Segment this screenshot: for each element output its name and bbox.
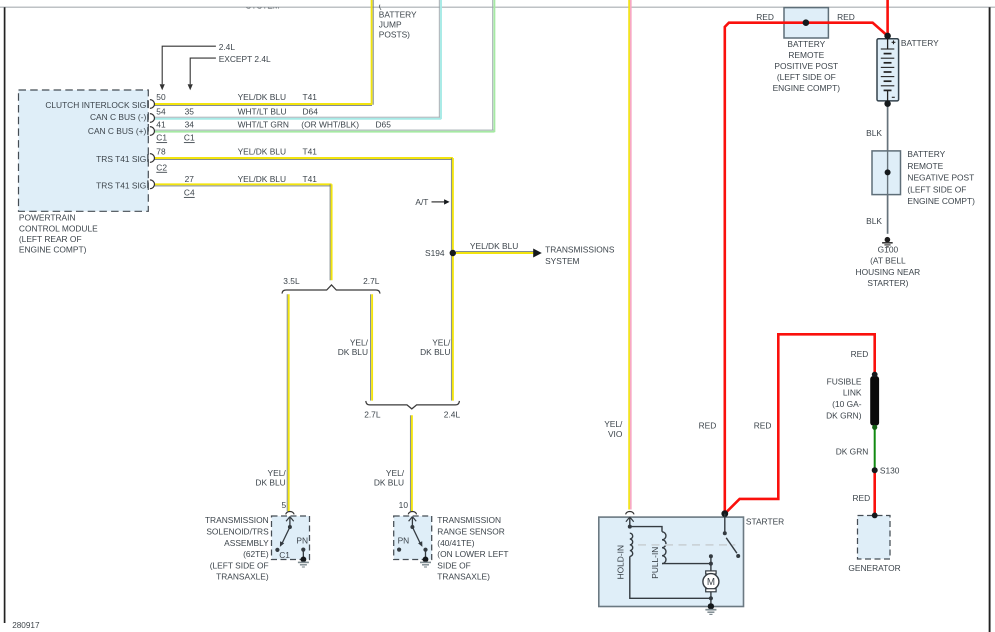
svg-text:ENGINE COMPT): ENGINE COMPT) [907, 196, 975, 206]
svg-text:(62TE): (62TE) [243, 549, 269, 559]
svg-text:C1: C1 [279, 550, 290, 560]
svg-text:BATTERY: BATTERY [907, 149, 945, 159]
svg-text:C1: C1 [156, 133, 167, 143]
svg-text:2.4L: 2.4L [219, 42, 236, 52]
svg-text:PN: PN [296, 536, 308, 546]
svg-text:YEL/: YEL/ [604, 419, 623, 429]
svg-text:YEL/DK BLU: YEL/DK BLU [470, 241, 518, 251]
svg-text:T41: T41 [303, 146, 318, 156]
svg-text:TRANSAXLE): TRANSAXLE) [216, 572, 269, 582]
svg-text:GENERATOR: GENERATOR [848, 563, 900, 573]
svg-text:VIO: VIO [608, 429, 623, 439]
svg-text:YEL/: YEL/ [268, 468, 287, 478]
svg-text:D64: D64 [303, 106, 319, 116]
svg-text:REMOTE: REMOTE [907, 161, 943, 171]
svg-text:POSTS): POSTS) [379, 30, 410, 40]
svg-text:YEL/DK BLU: YEL/DK BLU [238, 92, 286, 102]
svg-text:STARTER): STARTER) [867, 278, 908, 288]
svg-text:BATTERY: BATTERY [901, 38, 939, 48]
svg-text:5: 5 [282, 500, 287, 510]
svg-text:CLUTCH INTERLOCK SIG: CLUTCH INTERLOCK SIG [45, 100, 146, 110]
svg-text:DK GRN: DK GRN [836, 447, 869, 457]
svg-text:RED: RED [851, 349, 869, 359]
svg-text:WHT/LT GRN: WHT/LT GRN [238, 120, 289, 130]
svg-text:35: 35 [185, 106, 195, 116]
svg-text:A/T: A/T [415, 197, 428, 207]
svg-text:3.5L: 3.5L [283, 276, 300, 286]
svg-text:D65: D65 [376, 120, 392, 130]
svg-text:PULL-IN: PULL-IN [650, 547, 660, 579]
svg-text:TRS T41 SIG: TRS T41 SIG [96, 154, 146, 164]
svg-text:C2: C2 [156, 162, 167, 172]
svg-text:(LEFT SIDE OF: (LEFT SIDE OF [210, 560, 269, 570]
svg-text:ENGINE COMPT): ENGINE COMPT) [773, 83, 841, 93]
svg-text:50: 50 [156, 92, 166, 102]
svg-text:SIDE OF: SIDE OF [437, 560, 471, 570]
svg-text:G100: G100 [878, 244, 899, 254]
svg-text:TRANSMISSIONS: TRANSMISSIONS [545, 244, 615, 254]
svg-text:RANGE SENSOR: RANGE SENSOR [437, 527, 504, 537]
svg-text:RED: RED [756, 12, 774, 22]
svg-text:HOUSING NEAR: HOUSING NEAR [856, 267, 921, 277]
svg-text:S130: S130 [880, 466, 900, 476]
svg-text:YEL/: YEL/ [386, 468, 405, 478]
svg-text:CAN C BUS (+): CAN C BUS (+) [88, 126, 147, 136]
svg-text:78: 78 [156, 146, 166, 156]
svg-text:(OR WHT/BLK): (OR WHT/BLK) [301, 120, 359, 130]
svg-text:DK BLU: DK BLU [338, 347, 368, 357]
svg-text:27: 27 [185, 174, 195, 184]
svg-text:T41: T41 [303, 92, 318, 102]
svg-text:2.4L: 2.4L [444, 409, 461, 419]
svg-text:C1: C1 [184, 133, 195, 143]
svg-text:(LEFT SIDE OF: (LEFT SIDE OF [907, 184, 966, 194]
svg-text:(LEFT SIDE OF: (LEFT SIDE OF [777, 72, 836, 82]
svg-text:34: 34 [185, 120, 195, 130]
svg-text:CONTROL MODULE: CONTROL MODULE [19, 223, 98, 233]
svg-text:SOLENOID/TRS: SOLENOID/TRS [206, 527, 269, 537]
svg-text:2.7L: 2.7L [363, 276, 380, 286]
svg-text:C4: C4 [184, 187, 195, 197]
svg-text:BATTERY: BATTERY [379, 10, 417, 20]
svg-text:RED: RED [754, 420, 772, 430]
svg-text:T41: T41 [303, 174, 318, 184]
svg-text:(AT BELL: (AT BELL [870, 256, 906, 266]
svg-text:2.7L: 2.7L [364, 409, 381, 419]
svg-text:REMOTE: REMOTE [788, 50, 824, 60]
svg-text:YEL/DK BLU: YEL/DK BLU [238, 174, 286, 184]
svg-text:BLK: BLK [866, 128, 882, 138]
svg-text:NEGATIVE POST: NEGATIVE POST [907, 173, 974, 183]
svg-text:TRANSMISSION: TRANSMISSION [437, 515, 501, 525]
svg-text:54: 54 [156, 106, 166, 116]
svg-text:TRANSMISSION: TRANSMISSION [205, 515, 269, 525]
svg-text:DK BLU: DK BLU [374, 478, 404, 488]
svg-text:ASSEMBLY: ASSEMBLY [224, 538, 269, 548]
svg-text:RED: RED [853, 493, 871, 503]
svg-text:DK GRN): DK GRN) [826, 411, 862, 421]
svg-text:RED: RED [837, 12, 855, 22]
svg-text:FUSIBLE: FUSIBLE [827, 376, 862, 386]
svg-text:WHT/LT BLU: WHT/LT BLU [238, 106, 287, 116]
svg-text:TRS T41 SIG: TRS T41 SIG [96, 181, 146, 191]
svg-text:S194: S194 [425, 248, 445, 258]
svg-text:RED: RED [699, 420, 717, 430]
svg-text:YEL/DK BLU: YEL/DK BLU [238, 146, 286, 156]
svg-text:(ON LOWER LEFT: (ON LOWER LEFT [437, 549, 508, 559]
svg-text:BLK: BLK [866, 216, 882, 226]
svg-text:LINK: LINK [843, 388, 862, 398]
svg-text:SYSTEM: SYSTEM [246, 1, 280, 11]
svg-text:(40/41TE): (40/41TE) [437, 538, 474, 548]
svg-text:TRANSAXLE): TRANSAXLE) [437, 572, 490, 582]
svg-text:DK BLU: DK BLU [255, 478, 285, 488]
svg-text:JUMP: JUMP [379, 20, 402, 30]
svg-text:POSITIVE POST: POSITIVE POST [774, 61, 838, 71]
svg-text:(10 GA-: (10 GA- [832, 399, 862, 409]
svg-text:(LEFT REAR OF: (LEFT REAR OF [19, 234, 82, 244]
svg-text:YEL/: YEL/ [350, 337, 369, 347]
svg-text:HOLD-IN: HOLD-IN [616, 545, 626, 579]
svg-text:POWERTRAIN: POWERTRAIN [19, 213, 76, 223]
svg-text:M: M [707, 577, 715, 588]
svg-text:280917: 280917 [12, 621, 40, 630]
svg-text:10: 10 [399, 500, 409, 510]
svg-text:DK BLU: DK BLU [420, 347, 450, 357]
svg-text:SYSTEM: SYSTEM [545, 256, 579, 266]
svg-text:BATTERY: BATTERY [787, 39, 825, 49]
svg-text:EXCEPT 2.4L: EXCEPT 2.4L [219, 54, 271, 64]
svg-text:PN: PN [398, 536, 410, 546]
svg-text:YEL/: YEL/ [432, 337, 451, 347]
svg-text:ENGINE COMPT): ENGINE COMPT) [19, 245, 87, 255]
svg-text:41: 41 [156, 120, 166, 130]
svg-text:CAN C BUS (-): CAN C BUS (-) [90, 112, 147, 122]
svg-text:STARTER: STARTER [746, 517, 784, 527]
